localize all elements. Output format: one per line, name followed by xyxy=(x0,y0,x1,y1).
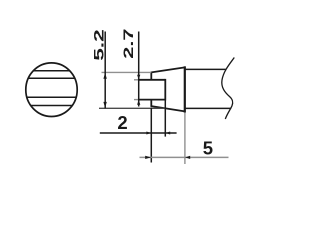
dim 5: arrow right (outside left) xyxy=(145,156,151,159)
side view: cone bottom slant xyxy=(151,106,185,111)
svg-text:5: 5 xyxy=(203,137,213,158)
dim 5.2: arrow down xyxy=(103,102,106,108)
dim 5: horizontal dimension line xyxy=(140,156,229,158)
side view: plug bottom edge xyxy=(139,99,166,101)
dim 5: arrow left (outside right) xyxy=(185,156,190,159)
side view: cone left edge lower segment xyxy=(150,99,152,107)
dim 2.7: vertical dimension line (doubles as plug left face) xyxy=(138,32,140,107)
dim 2: extension line right (from slot inner edge) xyxy=(164,101,166,137)
dim 2: extension line left (from cone left edge) xyxy=(150,108,152,163)
dim 5.2: vertical dimension line xyxy=(104,32,106,109)
side view: cylinder top edge xyxy=(185,68,227,70)
chord line 1 (cone top silhouette) xyxy=(33,70,70,72)
side view: break S-curve at right xyxy=(222,58,235,120)
dim 2.7: arrow up (outside, below plug bottom) xyxy=(137,100,140,105)
svg-text:2: 2 xyxy=(117,112,127,133)
dim 2.7: arrow down (outside, above plug top) xyxy=(137,75,140,80)
chord line 4 (cone bottom silhouette) xyxy=(31,105,73,107)
side view: slot inner right edge xyxy=(164,79,166,101)
end view circle xyxy=(26,63,77,117)
side view: cone top slant xyxy=(151,67,185,72)
chord line 2 (plug top) xyxy=(28,77,76,79)
side view: plug top edge xyxy=(139,79,166,81)
dim 5.2: extension line top xyxy=(102,71,152,73)
svg-text:2.7: 2.7 xyxy=(120,29,136,59)
dim 5.2: arrow up xyxy=(103,73,106,79)
side view: cone/cylinder joint line xyxy=(184,66,186,112)
side view: cone left edge upper segment xyxy=(150,72,152,80)
dim 2: arrow right (outside left) xyxy=(146,132,151,135)
dim 2.7: extension stub left at plug top level xyxy=(134,79,139,81)
dim 2.7: extension stub left at plug bottom level xyxy=(134,99,139,101)
svg-text:5.2: 5.2 xyxy=(91,29,107,61)
chord line 3 (plug bottom) xyxy=(26,96,76,98)
side view: cylinder bottom edge xyxy=(185,107,231,109)
dim 5: extension line right (from cone base) xyxy=(184,112,186,164)
dim 2: horizontal dimension line xyxy=(100,132,177,134)
dim 2: arrow left (outside right) xyxy=(166,132,171,135)
dim 5.2: extension line bottom xyxy=(99,107,165,109)
